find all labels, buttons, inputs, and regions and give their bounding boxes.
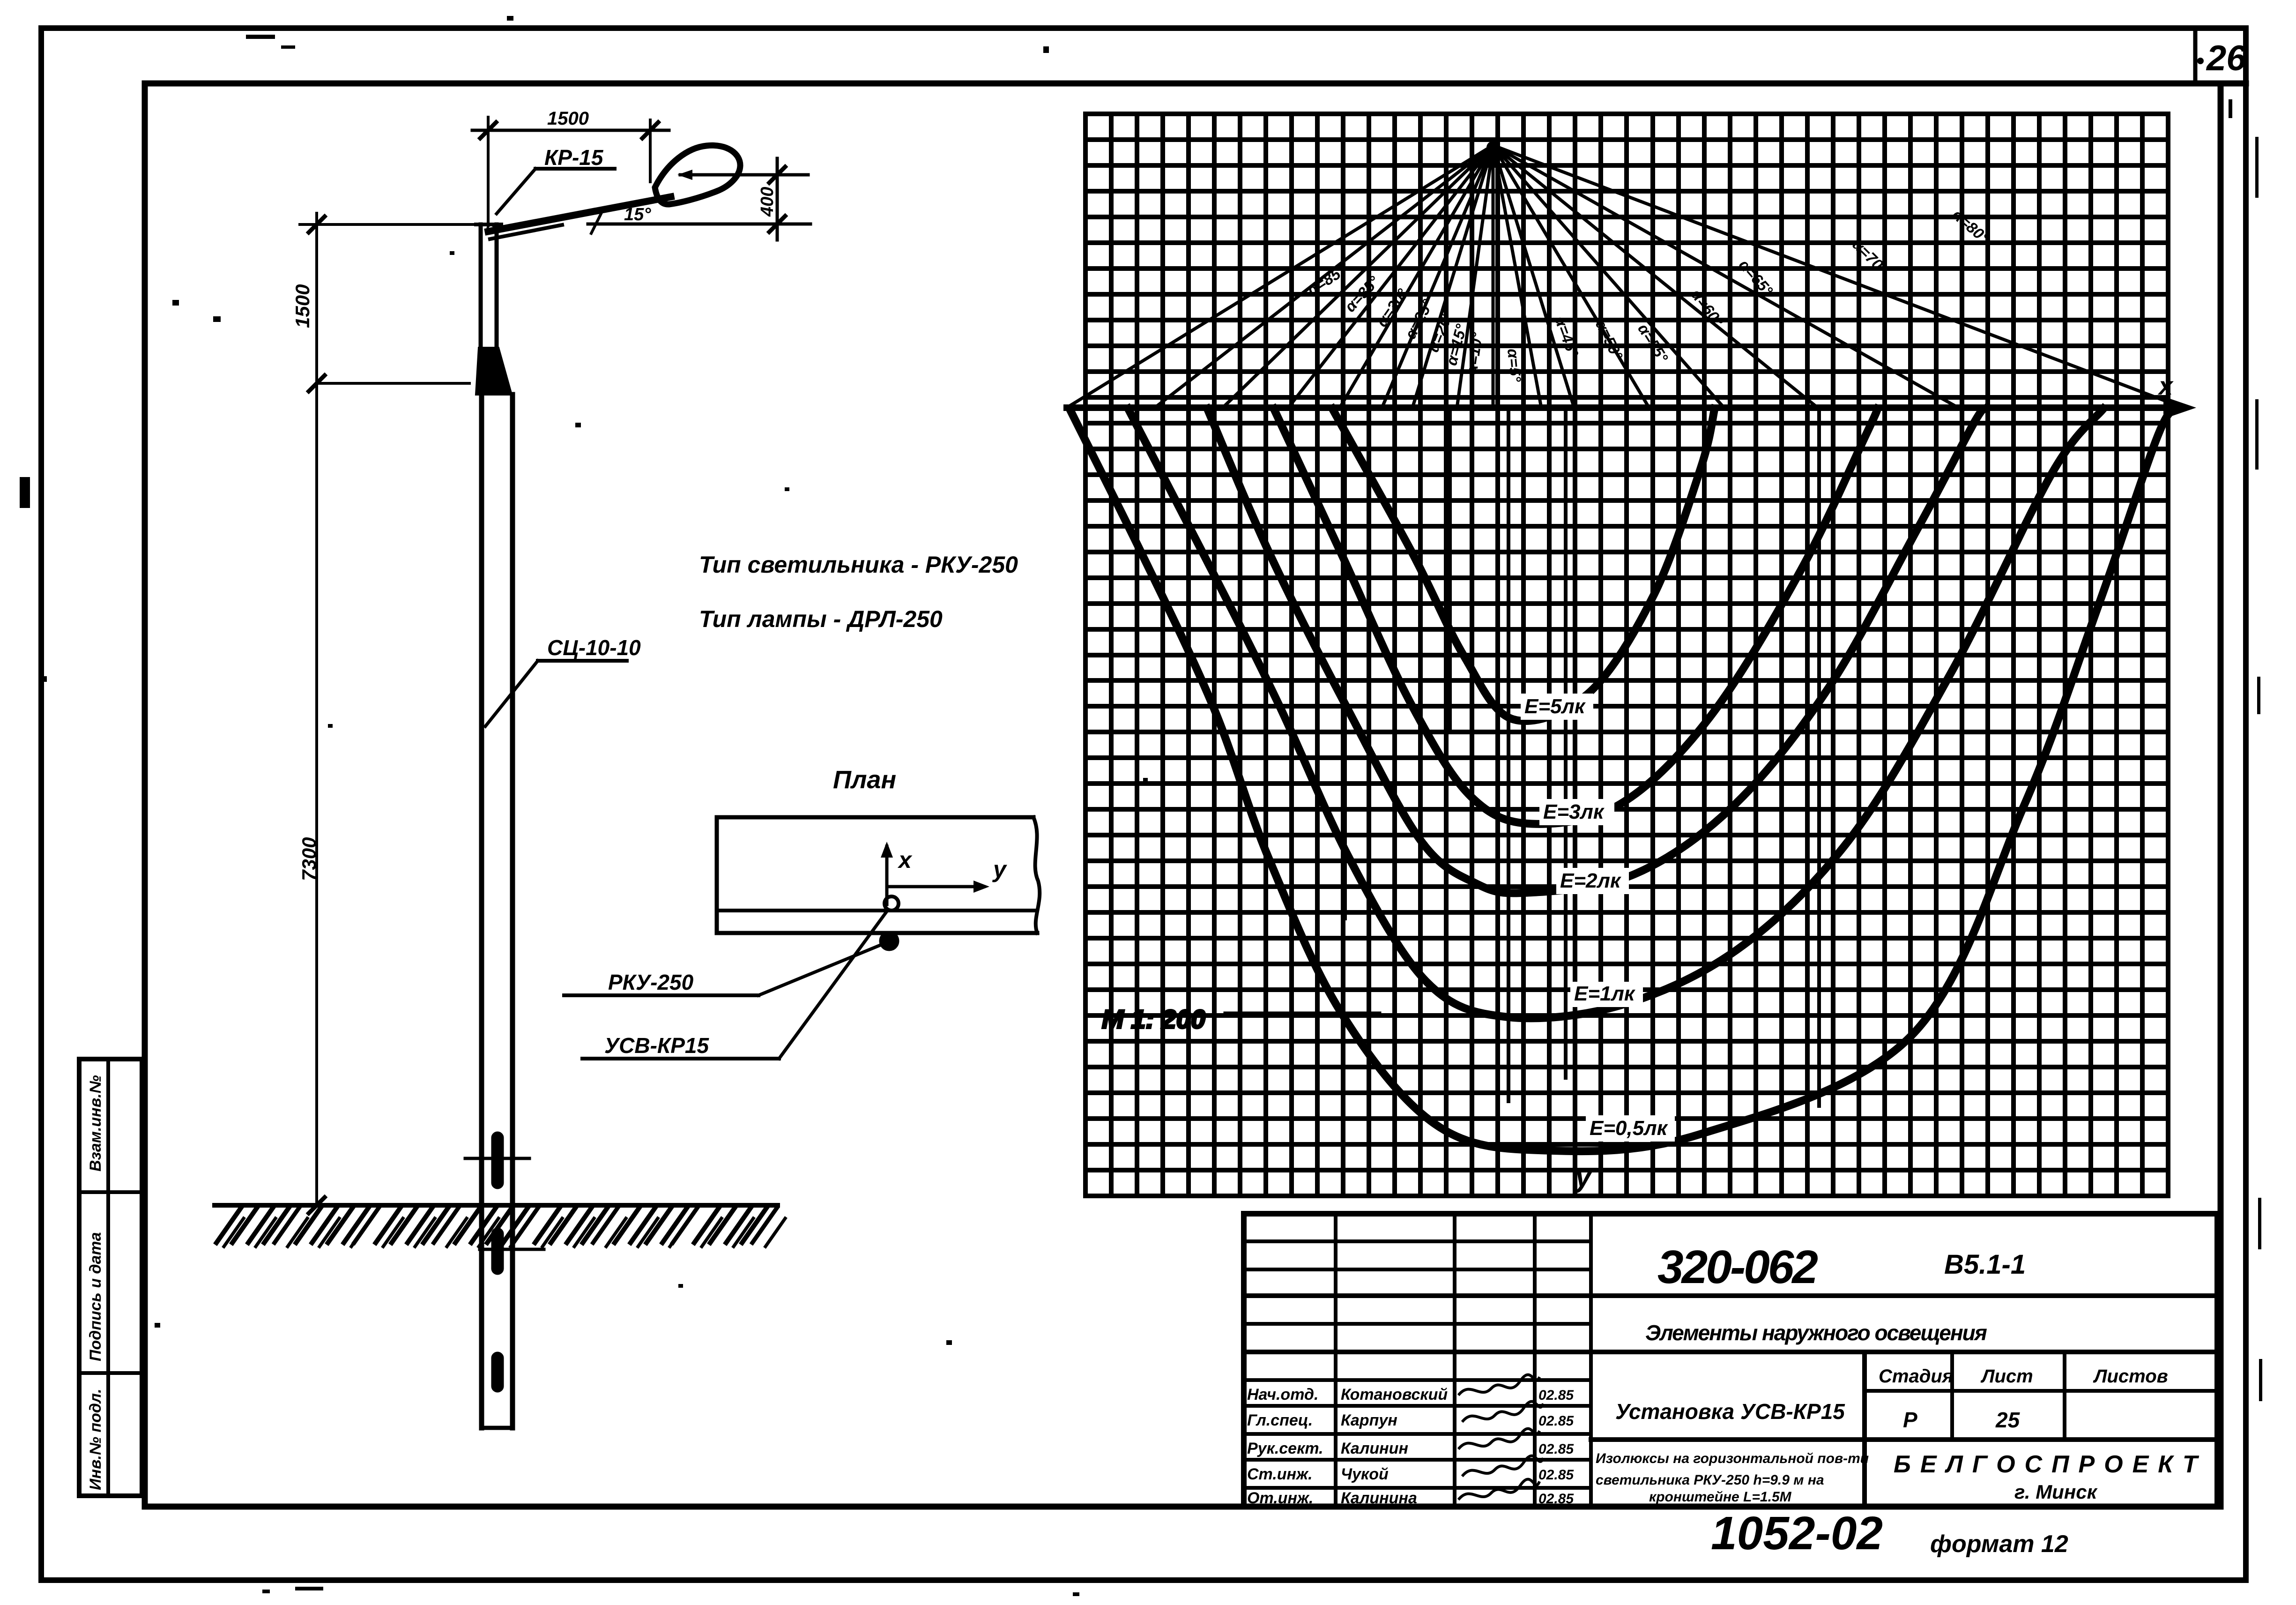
ground hatching [216, 1208, 241, 1243]
svg-text:02.85: 02.85 [1538, 1388, 1574, 1403]
label USV-KR15 leader [582, 1057, 779, 1060]
svg-text:Р: Р [1903, 1408, 1917, 1432]
svg-text:УСВ-КР15: УСВ-КР15 [604, 1033, 709, 1058]
svg-text:1500: 1500 [547, 108, 589, 129]
svg-text:Подпись и дата: Подпись и дата [87, 1232, 104, 1361]
svg-text:М 1: 200: М 1: 200 [1102, 1004, 1205, 1034]
svg-text:Установка УСВ-КР15: Установка УСВ-КР15 [1615, 1399, 1845, 1424]
isolux grid [1085, 114, 2168, 1196]
svg-text:Изолюксы на горизонтальной пов: Изолюксы на горизонтальной пов-ти [1596, 1451, 1869, 1466]
bracket arm KR-15 [488, 197, 671, 231]
scale label M 1:200 [1102, 1004, 1205, 1034]
svg-text:Е=5лк: Е=5лк [1524, 695, 1586, 718]
right dimension 400 and 15 deg [588, 223, 810, 226]
svg-text:у: у [1574, 1159, 1593, 1193]
svg-text:Листов: Листов [2093, 1366, 2168, 1387]
top dimension 1500 [472, 129, 669, 132]
svg-text:СЦ-10-10: СЦ-10-10 [547, 635, 641, 660]
plan luminaire point [884, 896, 899, 911]
side stamp box [79, 1059, 142, 1496]
plan x axis [885, 846, 889, 904]
svg-text:Калинина: Калинина [1341, 1489, 1417, 1507]
svg-text:320-062: 320-062 [1657, 1241, 1818, 1293]
pole base slot 3 [491, 1352, 504, 1392]
svg-text:В5.1-1: В5.1-1 [1944, 1249, 2026, 1280]
svg-text:Е=3лк: Е=3лк [1543, 800, 1605, 823]
svg-text:Е=2лк: Е=2лк [1560, 869, 1622, 892]
svg-text:02.85: 02.85 [1538, 1441, 1574, 1457]
svg-text:Е=1лк: Е=1лк [1574, 982, 1636, 1005]
svg-text:План: План [833, 766, 896, 794]
svg-text:КР-15: КР-15 [544, 145, 604, 170]
plan y axis [887, 885, 984, 888]
title block texts [1596, 1241, 2207, 1505]
svg-text:7300: 7300 [298, 837, 320, 881]
label KR-15 leader [535, 167, 615, 171]
pole upper thin section [479, 224, 483, 348]
text: lamp type lines [699, 552, 1018, 632]
side stamp rotated labels [87, 1075, 104, 1490]
svg-text:БЕЛГОСПРОЕКТ: БЕЛГОСПРОЕКТ [1894, 1451, 2207, 1478]
svg-text:Элементы наружного освещения: Элементы наружного освещения [1645, 1321, 1987, 1345]
svg-text:Котановский: Котановский [1341, 1386, 1448, 1403]
svg-text:02.85: 02.85 [1538, 1467, 1574, 1483]
svg-text:Тип светильника - РКУ-250: Тип светильника - РКУ-250 [699, 552, 1018, 578]
svg-text:кронштейне L=1.5М: кронштейне L=1.5М [1649, 1489, 1792, 1505]
svg-text:x: x [897, 847, 913, 873]
label RKU-250 leader [564, 993, 758, 997]
svg-text:Ст.инж.: Ст.инж. [1247, 1465, 1313, 1483]
svg-text:α=5°: α=5° [1504, 348, 1524, 383]
svg-text:Инв.№ подл.: Инв.№ подл. [87, 1389, 104, 1490]
svg-text:02.85: 02.85 [1538, 1413, 1574, 1429]
fan apex blob [1486, 141, 1500, 154]
label SC-10-10 leader [538, 659, 627, 663]
svg-text:Чукой: Чукой [1341, 1465, 1389, 1483]
ground line [215, 1203, 778, 1208]
svg-text:Лист: Лист [1980, 1366, 2033, 1387]
pole base slot 2 [491, 1228, 504, 1275]
construction vertical lines [1345, 410, 1819, 1106]
isolux curves [1070, 409, 2174, 1151]
page number box [2193, 30, 2198, 84]
svg-text:Нач.отд.: Нач.отд. [1247, 1386, 1318, 1403]
pole sleeve joint [476, 348, 512, 395]
left dimension line [315, 213, 318, 1205]
svg-text:светильника РКУ-250 h=9.9 м на: светильника РКУ-250 h=9.9 м на [1596, 1472, 1824, 1488]
plan road rectangle [717, 817, 1037, 933]
svg-text:Стадия: Стадия [1879, 1366, 1953, 1387]
isolux curve value labels [1521, 694, 1593, 720]
title block [1244, 1214, 2217, 1507]
svg-text:Рук.сект.: Рук.сект. [1247, 1440, 1323, 1457]
svg-text:От.инж.: От.инж. [1247, 1489, 1313, 1507]
note 1052-02 [1711, 1507, 2068, 1560]
svg-text:y: y [992, 856, 1007, 882]
svg-text:1052-02: 1052-02 [1711, 1507, 1883, 1560]
ray angle labels [1304, 206, 1992, 383]
svg-text:Карпун: Карпун [1341, 1411, 1397, 1429]
plan pole point [879, 931, 899, 951]
luminaire head [655, 145, 740, 204]
signatures [1459, 1375, 1543, 1499]
page number 26 [2197, 38, 2246, 78]
svg-text:Е=0,5лк: Е=0,5лк [1590, 1117, 1669, 1140]
svg-text:Гл.спец.: Гл.спец. [1247, 1411, 1313, 1429]
plan road inner edge [717, 909, 1036, 912]
svg-text:Калинин: Калинин [1341, 1440, 1408, 1457]
y axis label inside grid bottom [1574, 1159, 1593, 1193]
svg-text:400: 400 [758, 187, 777, 217]
svg-text:25: 25 [1995, 1408, 2021, 1432]
svg-text:Тип лампы - ДРЛ-250: Тип лампы - ДРЛ-250 [699, 606, 943, 632]
svg-text:г. Минск: г. Минск [2014, 1481, 2098, 1503]
horizontal reference line with x arrow [1067, 404, 2183, 411]
svg-text:формат 12: формат 12 [1930, 1530, 2068, 1558]
svg-text:1500: 1500 [291, 284, 313, 328]
svg-text:x: x [2157, 372, 2174, 400]
svg-text:02.85: 02.85 [1538, 1491, 1574, 1507]
fan of angle rays [1067, 145, 2183, 408]
pole base slot 1 [491, 1132, 504, 1189]
svg-text:Взам.инв.№: Взам.инв.№ [87, 1075, 104, 1172]
svg-text:РКУ-250: РКУ-250 [608, 970, 694, 994]
plan view heading [833, 766, 896, 794]
svg-text:26: 26 [2206, 38, 2246, 78]
svg-text:15°: 15° [624, 205, 651, 224]
luminaire axis arrow [680, 173, 808, 177]
pole lower section [479, 395, 484, 1428]
signature rows [1247, 1386, 1574, 1507]
bracket pivot [488, 225, 494, 231]
